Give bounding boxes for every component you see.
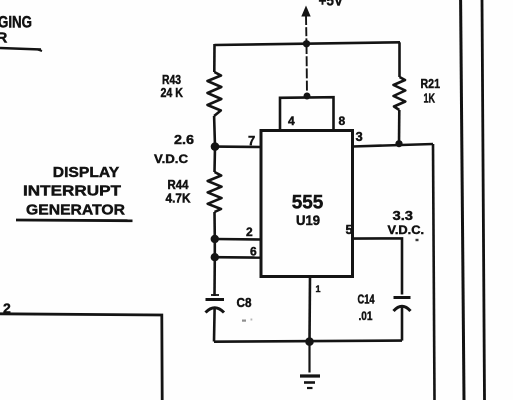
wire +5V arrow to top rail bbox=[305, 16, 308, 44]
svg-text:2: 2 bbox=[246, 225, 253, 239]
svg-text:+5V: +5V bbox=[319, 0, 344, 10]
capacitor C8 top tick bbox=[211, 294, 219, 296]
title DISPLAY INTERRUPT GENERATOR bbox=[23, 164, 125, 219]
pin 3 wire bbox=[353, 144, 434, 147]
svg-text:.01: .01 bbox=[359, 309, 373, 323]
svg-text:2.6: 2.6 bbox=[174, 132, 194, 147]
svg-text:C14: C14 bbox=[358, 293, 375, 307]
node junction on pins 4-8 strap bbox=[304, 93, 311, 100]
wire top supply rail bbox=[215, 42, 401, 45]
wire node pin6 down to capacitor C8 bbox=[213, 257, 216, 296]
pin 5 wire bbox=[353, 238, 403, 294]
svg-text:1: 1 bbox=[316, 284, 321, 294]
capacitor C14 straight plate bbox=[394, 296, 411, 299]
wire node pin2 to node pin6 bbox=[214, 239, 217, 257]
svg-text:3: 3 bbox=[356, 129, 363, 144]
svg-text:4: 4 bbox=[288, 114, 295, 128]
svg-text:8: 8 bbox=[339, 114, 346, 128]
svg-text:R43: R43 bbox=[162, 73, 181, 87]
capacitor C8 curved plate bbox=[206, 308, 225, 313]
capacitor C14 curved plate bbox=[394, 306, 411, 311]
svg-text:555: 555 bbox=[292, 193, 324, 214]
pin 6 wire bbox=[215, 256, 261, 259]
power +5V arrow bbox=[301, 6, 310, 17]
label C8 value (faint marks) bbox=[242, 320, 246, 322]
svg-text:V.D.C: V.D.C bbox=[154, 152, 188, 166]
svg-text:R: R bbox=[0, 30, 8, 47]
ground symbol bbox=[300, 342, 320, 388]
svg-text:V.D.C.: V.D.C. bbox=[388, 225, 425, 237]
wire strap connecting pin 4 and pin 8 bbox=[280, 97, 334, 131]
stray mark near pin 5 wire bbox=[416, 239, 419, 241]
IC U19 555 timer body bbox=[261, 131, 353, 277]
border lines (page edge), drawn first bbox=[461, 0, 464, 400]
svg-text:1K: 1K bbox=[424, 92, 436, 106]
node junction pin7 / 2.6VDC bbox=[211, 142, 220, 151]
svg-text:GENERATOR: GENERATOR bbox=[26, 202, 125, 219]
resistor R43 bbox=[208, 72, 222, 116]
resistor R21 bbox=[394, 42, 406, 143]
pin 3 output wire going down off page bbox=[433, 144, 435, 400]
svg-text:3.3: 3.3 bbox=[393, 208, 414, 223]
node junction +5V on top rail bbox=[303, 40, 310, 47]
node junction pin 6 bbox=[211, 253, 219, 261]
wire C14 to bottom rail bbox=[401, 307, 404, 341]
svg-text:INTERRUPT: INTERRUPT bbox=[23, 183, 121, 200]
title underline bbox=[16, 219, 133, 222]
svg-text:U19: U19 bbox=[296, 213, 320, 228]
pin 1 wire bbox=[308, 277, 311, 342]
wire C8 to bottom rail bbox=[213, 309, 216, 342]
node junction ground / pin 1 bbox=[305, 337, 314, 346]
svg-text:R21: R21 bbox=[421, 77, 441, 91]
svg-text:DISPLAY: DISPLAY bbox=[53, 164, 120, 181]
svg-text:C8: C8 bbox=[237, 295, 252, 310]
adjacent block outline corner (lower left) bbox=[0, 314, 162, 400]
wire R43 to node 7 bbox=[213, 116, 216, 147]
svg-text:5: 5 bbox=[346, 222, 353, 237]
svg-text:4.7K: 4.7K bbox=[166, 192, 191, 206]
svg-text:R44: R44 bbox=[168, 178, 189, 192]
pin 2 wire bbox=[215, 238, 261, 241]
resistor R44 bbox=[208, 172, 222, 212]
underline of adjacent block title bbox=[0, 48, 41, 50]
wire bottom rail bbox=[214, 341, 402, 342]
capacitor C8 straight plate bbox=[206, 298, 225, 301]
node junction R21 / pin 3 bbox=[395, 140, 402, 147]
wire node 7 to resistor R44 bbox=[213, 147, 216, 172]
wire rail to resistor R43 bbox=[213, 44, 216, 72]
pin 7 wire bbox=[215, 145, 261, 148]
wire +5V rail down to pins 4-8 strap bbox=[306, 44, 309, 96]
node junction pin 2 bbox=[211, 235, 219, 243]
svg-text:24 K: 24 K bbox=[161, 86, 184, 100]
wire R44 to node pin2 bbox=[213, 212, 216, 239]
